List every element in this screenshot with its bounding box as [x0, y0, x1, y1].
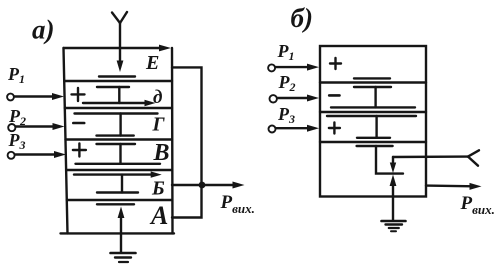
svg-text:Е: Е	[145, 52, 159, 74]
svg-text:д: д	[153, 87, 162, 108]
svg-text:Б: Б	[151, 178, 165, 200]
svg-text:а): а)	[32, 15, 55, 45]
svg-text:В: В	[153, 140, 170, 166]
svg-text:А: А	[149, 201, 168, 230]
svg-text:б): б)	[291, 3, 313, 33]
svg-text:Г: Г	[152, 114, 166, 136]
